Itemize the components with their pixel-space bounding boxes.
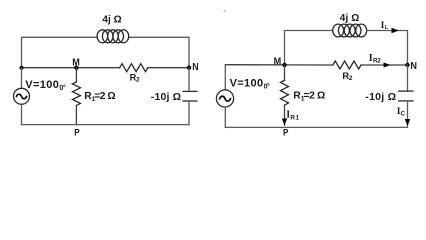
resistor R2 (right circuit, horizontal zigzag): [333, 61, 361, 69]
wire: left circuit middle rail from R2 to node N: [148, 67, 189, 69]
svg-text:N: N: [192, 61, 198, 73]
svg-text:L: L: [385, 25, 389, 31]
resistor R2 (left circuit, horizontal zigzag): [120, 64, 148, 72]
svg-text:2: 2: [136, 77, 140, 84]
resistor R1 (right circuit, vertical zigzag): [281, 80, 289, 105]
svg-text:0°: 0°: [59, 84, 66, 92]
wire: right circuit middle rail from R2 to node N: [361, 64, 408, 66]
capacitor C1 -10j ohm (left circuit): [183, 91, 197, 101]
current arrow IL (right circuit top rail): [392, 28, 399, 33]
node junction dot at left edge / middle rail (left circuit): [20, 66, 24, 70]
resistor R1 (left circuit, vertical zigzag): [72, 82, 80, 106]
current arrow IC (downward): [405, 119, 410, 126]
svg-text:=2 Ω: =2 Ω: [304, 90, 326, 101]
stray mark (faint speck): [223, 10, 225, 12]
svg-text:V=100: V=100: [230, 78, 264, 90]
svg-text:2: 2: [349, 75, 353, 82]
wire: right circuit top rail riser from M and segment to inductor: [285, 31, 333, 66]
svg-text:R1: R1: [290, 114, 299, 121]
wire: right circuit middle rail from left corner to R2: [225, 64, 332, 66]
svg-text:M: M: [274, 56, 282, 67]
wire: left circuit middle rail from left edge to R2: [22, 67, 120, 69]
inductor L2 4j ohm (right circuit): [333, 24, 367, 37]
wire: left circuit top rail (left segment to inductor): [22, 37, 98, 67]
wire: R1 branch top segment (right circuit): [284, 65, 286, 80]
wire: left circuit bottom rail: [22, 124, 190, 126]
source V2 circle with sine (right circuit): [216, 65, 233, 128]
capacitor C2 -10j ohm (right circuit): [399, 91, 413, 101]
current arrow IR2 (right circuit middle rail): [384, 62, 391, 67]
node N (left circuit): [187, 66, 191, 70]
svg-text:P: P: [283, 128, 289, 139]
wire: right circuit bottom rail: [225, 126, 407, 128]
wire: left circuit top rail (inductor to top-right corner) and right edge down to N: [129, 37, 189, 67]
wire: R1 branch bottom segment with current arrow (right circuit): [284, 105, 286, 125]
svg-text:4j Ω: 4j Ω: [340, 13, 360, 24]
wire: right circuit top rail from inductor to top-right corner, down to N: [367, 31, 408, 66]
wire: right edge of left circuit below capacitor: [188, 101, 190, 125]
svg-text:-10j Ω: -10j Ω: [151, 91, 181, 103]
svg-text:C: C: [401, 110, 406, 117]
wire: right edge of right circuit from N down to capacitor: [407, 65, 409, 91]
wire: R1 branch bottom segment (left circuit): [75, 106, 77, 125]
svg-text:0°: 0°: [264, 83, 270, 91]
node M (left circuit): [74, 66, 78, 70]
node N (right circuit): [405, 63, 409, 67]
svg-text:P: P: [74, 127, 80, 138]
node M (right circuit): [282, 63, 286, 67]
svg-text:R2: R2: [373, 58, 381, 65]
wire: right edge below capacitor with current arrow (right circuit): [407, 101, 409, 126]
wire: right edge of left circuit from N down to capacitor: [188, 68, 190, 92]
wire: R1 branch top segment (left circuit): [75, 68, 77, 82]
svg-text:M: M: [72, 58, 80, 69]
svg-text:=2 Ω: =2 Ω: [94, 91, 115, 102]
inductor L1 4j ohm (left circuit): [97, 30, 129, 43]
svg-text:V=100: V=100: [25, 79, 59, 91]
current arrow IR1 (downward): [282, 119, 287, 126]
svg-text:-10j Ω: -10j Ω: [365, 91, 396, 103]
source V1 circle with sine (left circuit): [14, 68, 30, 125]
svg-text:4j Ω: 4j Ω: [102, 15, 121, 26]
svg-text:N: N: [410, 60, 417, 72]
